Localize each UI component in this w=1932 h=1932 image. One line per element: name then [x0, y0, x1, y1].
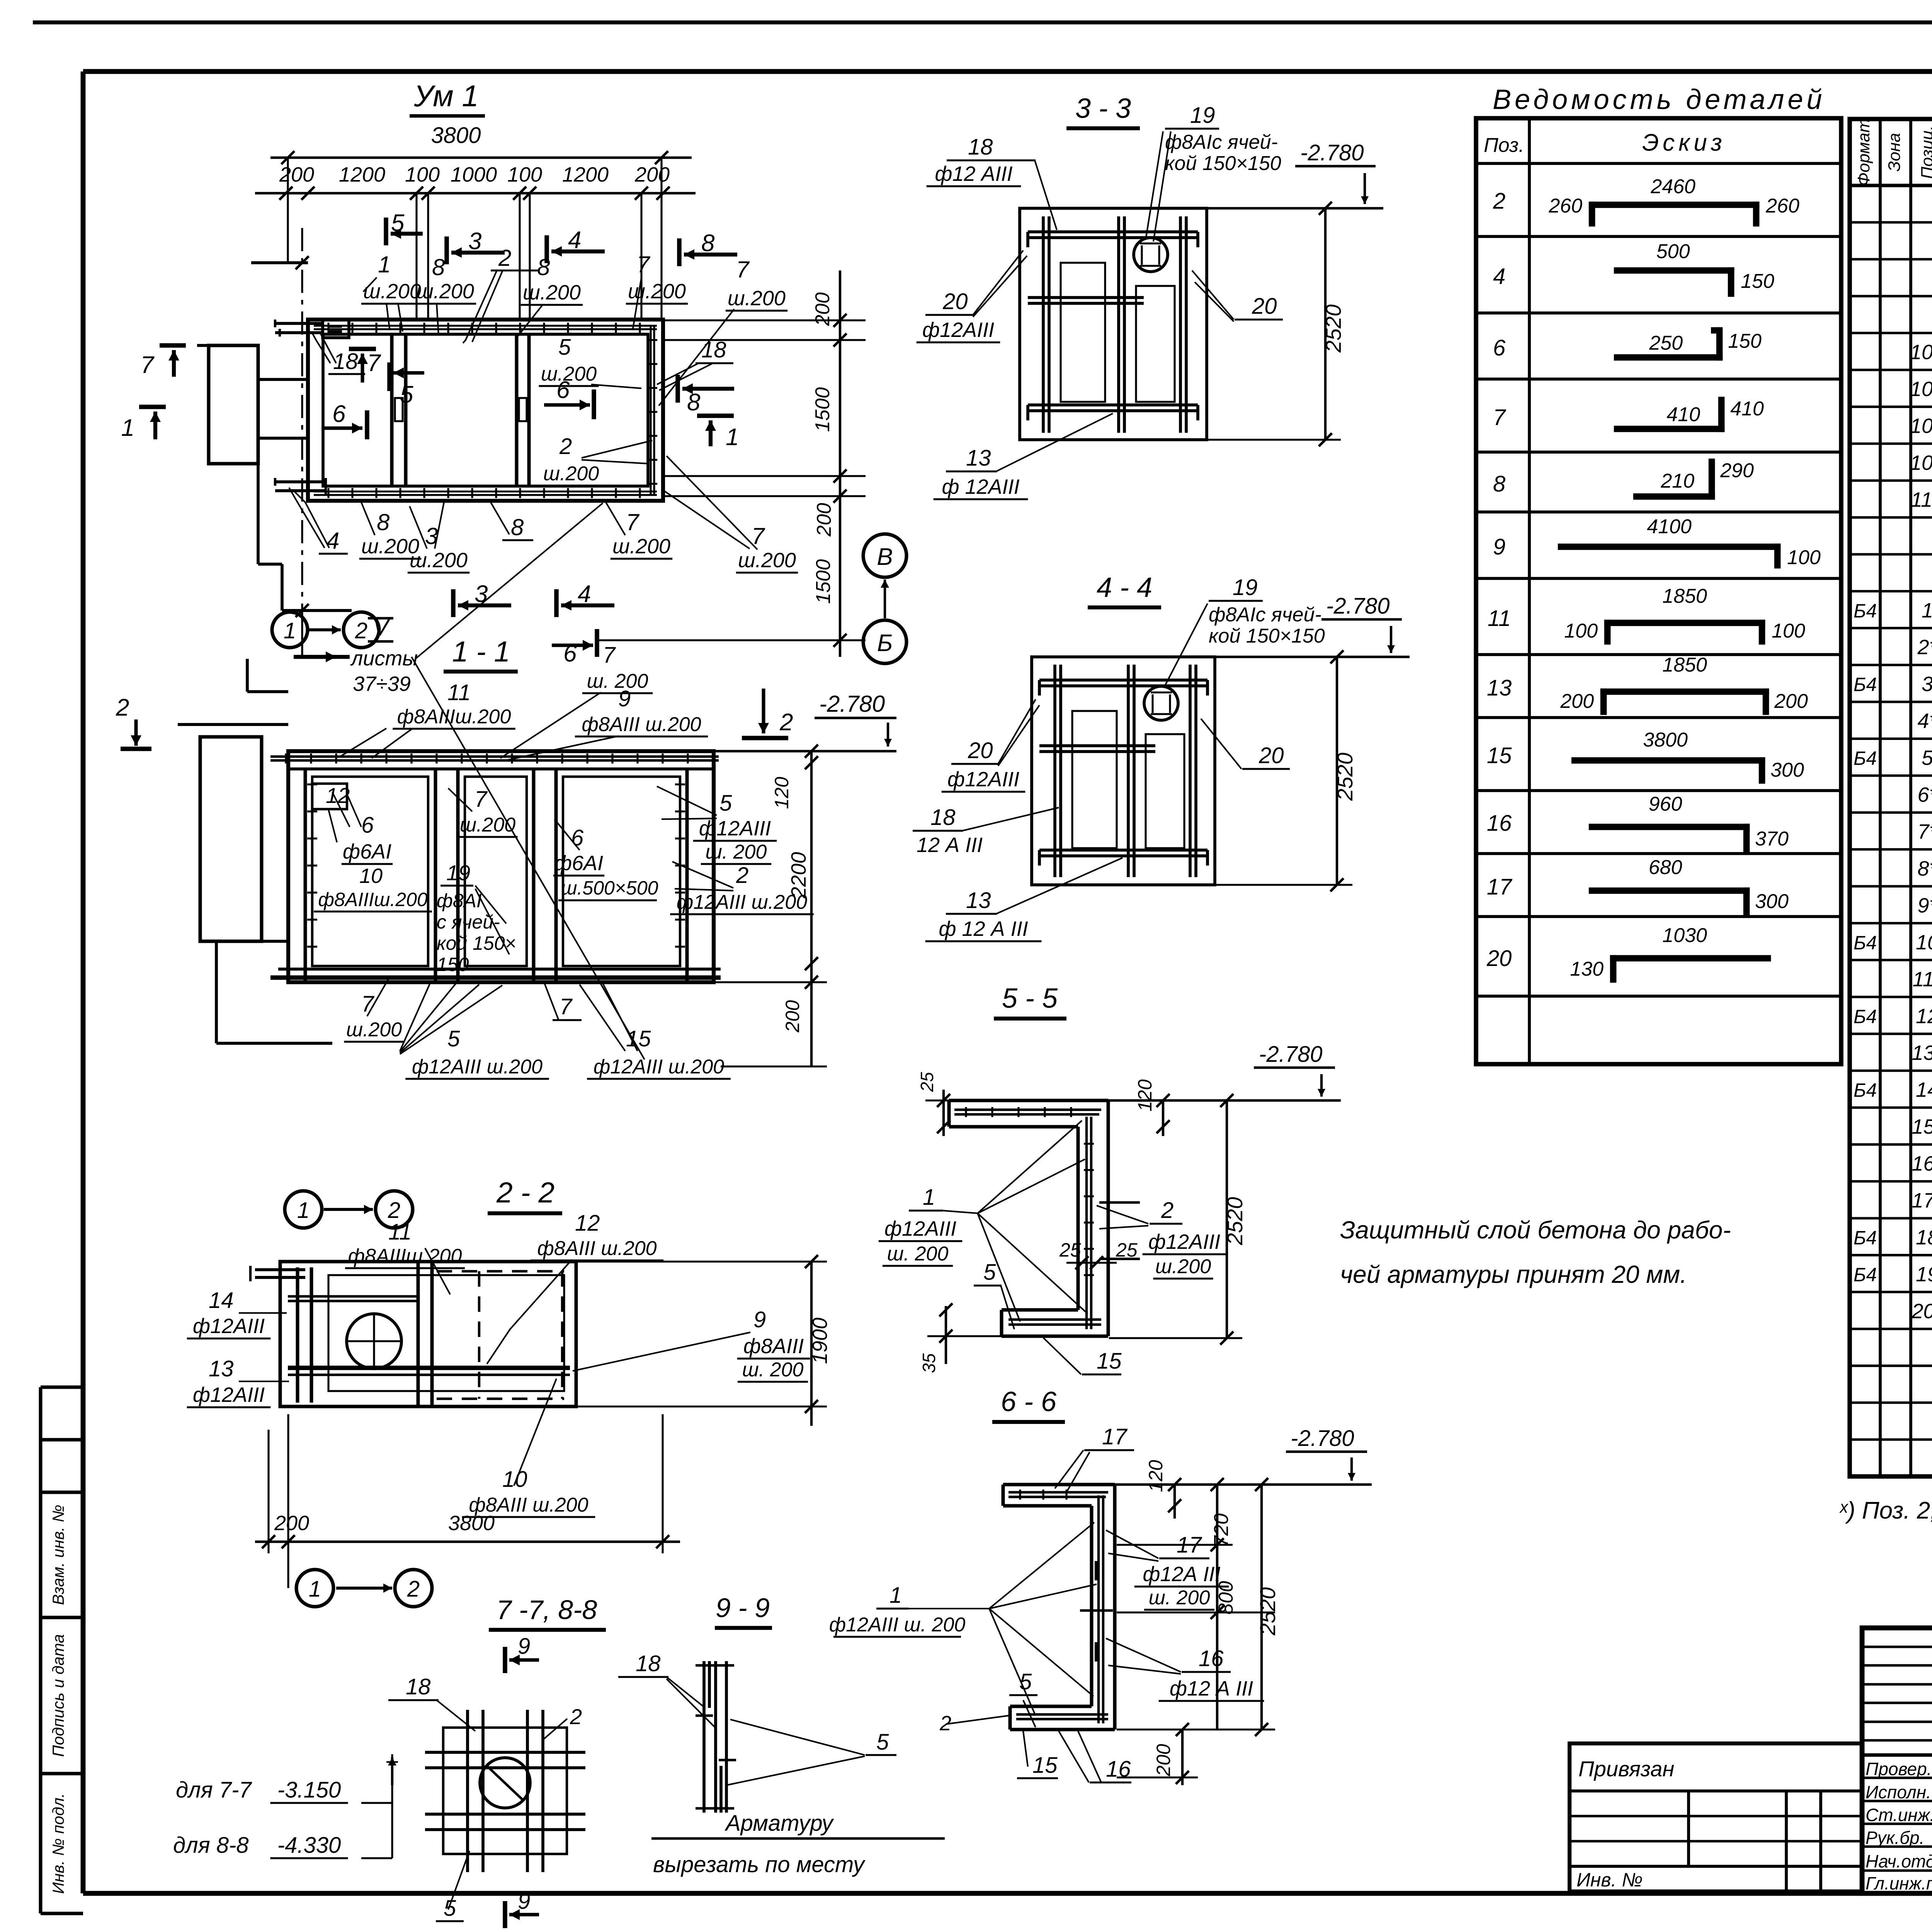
- vedomost sketch row 11: [1564, 585, 1805, 642]
- vedomost sketch row 17: [1592, 856, 1789, 913]
- svg-text:Защитный слой бетона до ра: Защитный слой бетона до рабо-: [1340, 1216, 1731, 1244]
- specification table grid: [1850, 119, 1932, 1476]
- svg-text:15: 15: [1487, 743, 1512, 768]
- plan label 8 bottom center: [491, 502, 533, 540]
- svg-text:7: 7: [367, 350, 381, 376]
- svg-text:14: 14: [209, 1288, 234, 1313]
- 5-5 label 15: [1043, 1338, 1122, 1374]
- svg-text:1: 1: [889, 1583, 902, 1608]
- plan embedded item top-left: [323, 320, 349, 338]
- node V mark: [294, 615, 418, 696]
- svg-text:150: 150: [1728, 330, 1762, 352]
- 1-1 label 6 f6AI sh500: [553, 819, 658, 900]
- svg-text:7: 7: [361, 992, 375, 1017]
- svg-text:300: 300: [1770, 759, 1804, 781]
- svg-text:ш.200: ш.200: [346, 1019, 402, 1041]
- svg-text:20: 20: [942, 289, 968, 314]
- spec row 104: [1910, 378, 1932, 401]
- svg-text:3 - 3: 3 - 3: [1075, 93, 1131, 124]
- svg-text:8: 8: [537, 254, 550, 280]
- svg-text:ф12АIII: ф12АIII: [884, 1217, 956, 1240]
- svg-text:Подпись и дата: Подпись и дата: [49, 1634, 67, 1757]
- svg-text:ф8АIс ячей-: ф8АIс ячей-: [1209, 604, 1321, 626]
- svg-text:410: 410: [1730, 398, 1764, 420]
- svg-text:410: 410: [1667, 403, 1700, 426]
- svg-text:ш. 200: ш. 200: [742, 1359, 804, 1381]
- 1-1 label 12 box: [312, 783, 350, 842]
- svg-text:1: 1: [726, 424, 739, 451]
- svg-text:1: 1: [297, 1198, 310, 1223]
- svg-text:20*: 20*: [1911, 1299, 1932, 1323]
- vedomost sketch row 4: [1617, 240, 1774, 294]
- svg-text:2: 2: [116, 694, 129, 721]
- svg-text:100: 100: [1787, 546, 1821, 569]
- svg-text:Зона: Зона: [1885, 133, 1904, 172]
- detail 7-7 label 2: [544, 1704, 582, 1739]
- svg-text:16: 16: [1487, 811, 1512, 836]
- svg-text:25: 25: [1059, 1239, 1081, 1261]
- 4-4 label 18 left: [913, 805, 1059, 857]
- svg-text:ф12АIII: ф12АIII: [699, 817, 771, 840]
- svg-text:кой 150×150: кой 150×150: [1209, 625, 1325, 647]
- svg-text:18: 18: [333, 349, 358, 374]
- detail 9-9 label 5: [726, 1719, 896, 1785]
- section 5-5 title: [994, 983, 1066, 1019]
- svg-text:ш.200: ш.200: [416, 280, 474, 303]
- svg-text:1850: 1850: [1662, 654, 1707, 676]
- 3-3 dimension 2520: [1207, 202, 1345, 446]
- label 18 plan: [312, 333, 365, 374]
- section 2-2 title: [488, 1176, 562, 1213]
- svg-text:200: 200: [1560, 690, 1594, 713]
- svg-text:Провер.: Провер.: [1866, 1759, 1932, 1779]
- svg-text:ф8АIс ячей-: ф8АIс ячей-: [1165, 131, 1278, 153]
- svg-text:7: 7: [474, 787, 488, 812]
- svg-text:5: 5: [876, 1730, 889, 1755]
- svg-text:18: 18: [701, 337, 726, 362]
- svg-text:8: 8: [701, 230, 715, 257]
- svg-text:чей арматуры принят 20 мм.: чей арматуры принят 20 мм.: [1340, 1260, 1687, 1288]
- 6-6 label 1 left: [829, 1522, 1097, 1716]
- plan label 7 sh.200 right: [626, 252, 688, 328]
- 6-6 level -2.780: [1115, 1426, 1372, 1485]
- vedomost sketch row 20: [1570, 924, 1768, 980]
- svg-text:9 - 9: 9 - 9: [716, 1593, 770, 1623]
- svg-text:1: 1: [1922, 599, 1932, 622]
- svg-text:120: 120: [1145, 1460, 1167, 1492]
- vedomost sketch row 9: [1561, 515, 1821, 569]
- 6-6 label 17 right: [1106, 1530, 1229, 1610]
- existing structure outline left of plan: [197, 256, 352, 617]
- svg-text:4 - 4: 4 - 4: [1097, 572, 1152, 603]
- section 3-3 body: [1020, 208, 1207, 440]
- 3-3 label 20 right: [1192, 270, 1283, 321]
- section 5-5 body: [949, 1100, 1140, 1336]
- svg-text:100: 100: [1772, 620, 1805, 642]
- svg-text:17*: 17*: [1912, 1189, 1932, 1212]
- spec detail row 18: [1854, 1226, 1932, 1249]
- svg-text:2460: 2460: [1650, 175, 1696, 198]
- svg-text:ф8АI: ф8АI: [437, 890, 482, 912]
- plan label 8 sh.200 (1): [414, 254, 476, 335]
- svg-text:2: 2: [498, 245, 511, 271]
- 1-1 label 6 f6AI 10: [314, 792, 432, 912]
- 4-4 label 19: [1164, 575, 1325, 688]
- privyazan block: [1570, 1743, 1862, 1893]
- 6-6 dimension 200: [1117, 1723, 1198, 1785]
- section 2-2 left protruding bars: [250, 1266, 305, 1281]
- detail 7-7 label 18: [388, 1674, 475, 1731]
- sheet top edge line: [33, 20, 1932, 24]
- svg-text:2: 2: [407, 1577, 420, 1602]
- svg-text:5: 5: [447, 1026, 460, 1051]
- spec row 110: [1911, 481, 1932, 516]
- svg-text:1: 1: [923, 1185, 935, 1210]
- svg-text:13*: 13*: [1912, 1041, 1932, 1065]
- title block signers: [1866, 1759, 1932, 1893]
- section 4-4 title: [1088, 572, 1161, 607]
- vedomost sketch row 16: [1592, 793, 1789, 850]
- svg-text:15: 15: [1032, 1753, 1058, 1778]
- svg-text:7: 7: [560, 994, 573, 1019]
- svg-text:1000: 1000: [451, 163, 497, 186]
- svg-text:2520: 2520: [1321, 304, 1345, 353]
- svg-text:100: 100: [1564, 620, 1598, 642]
- svg-text:200: 200: [813, 503, 835, 537]
- svg-text:для 8-8: для 8-8: [173, 1833, 249, 1858]
- svg-text:Арматуру: Арматуру: [724, 1811, 834, 1836]
- svg-text:1: 1: [378, 252, 391, 277]
- plan dimension chain 200/1200/100/1000/100/1200/200: [255, 163, 696, 321]
- 3-3 label 18: [927, 134, 1057, 230]
- svg-text:Б4: Б4: [1854, 748, 1877, 769]
- section 1-1 cut marker 2 left: [116, 694, 151, 749]
- 6-6 label 15: [1017, 1731, 1058, 1778]
- svg-text:6: 6: [361, 813, 374, 838]
- svg-text:Гл.инж.пр.: Гл.инж.пр.: [1866, 1873, 1932, 1893]
- svg-text:ш.200: ш.200: [1155, 1255, 1211, 1278]
- svg-text:листы: листы: [350, 647, 418, 670]
- svg-text:-2.780: -2.780: [1300, 140, 1364, 165]
- svg-text:5: 5: [391, 210, 405, 236]
- svg-text:2: 2: [1161, 1198, 1173, 1223]
- 3-3 label 13 bottom: [934, 413, 1113, 499]
- svg-text:200: 200: [634, 163, 670, 186]
- svg-text:ш.200: ш.200: [523, 281, 581, 304]
- title block frame: [1862, 1628, 1932, 1893]
- svg-text:ш.500×500: ш.500×500: [561, 877, 658, 899]
- svg-text:8: 8: [377, 509, 390, 535]
- svg-text:2: 2: [779, 709, 793, 736]
- svg-text:Ум 1: Ум 1: [413, 79, 479, 113]
- levels for 7-7 8-8: [173, 1754, 398, 1858]
- 1-1 label 5 right: [657, 786, 777, 864]
- svg-text:105: 105: [1910, 414, 1932, 437]
- svg-text:4: 4: [1493, 264, 1505, 289]
- svg-text:9: 9: [1493, 534, 1505, 560]
- svg-text:260: 260: [1548, 195, 1582, 217]
- svg-text:9: 9: [618, 686, 631, 711]
- 3-3 label 20 left: [917, 250, 1027, 342]
- plan label 7 sh.200 bottom: [606, 502, 672, 559]
- plan wall reinforcement lines: [314, 323, 657, 498]
- svg-text:3: 3: [468, 228, 481, 255]
- svg-text:18: 18: [968, 134, 993, 160]
- vedomost detaley table grid: [1476, 118, 1841, 1064]
- svg-text:6: 6: [332, 401, 346, 427]
- detail 7-7 grid: [425, 1710, 585, 1872]
- spec row 101: [1910, 334, 1932, 369]
- section 4-4 body: [1032, 657, 1215, 885]
- svg-text:16*: 16*: [1912, 1152, 1932, 1175]
- 1-1 label 5 bottom: [400, 981, 549, 1079]
- plan grid circles 1 2: [272, 611, 379, 657]
- svg-text:9*: 9*: [1917, 894, 1932, 917]
- svg-text:13: 13: [1487, 675, 1512, 701]
- svg-text:ш. 200: ш. 200: [1149, 1587, 1210, 1609]
- svg-text:-2.780: -2.780: [819, 691, 885, 717]
- spec detail row 6*: [1917, 783, 1932, 806]
- left stamp strip: [41, 1387, 83, 1913]
- svg-text:1200: 1200: [562, 163, 609, 186]
- 2-2 label 12: [487, 1211, 663, 1364]
- cut marker 8 right: [678, 375, 734, 416]
- svg-text:3: 3: [1922, 673, 1932, 696]
- svg-text:17: 17: [1487, 874, 1513, 900]
- svg-text:19: 19: [1916, 1263, 1932, 1286]
- svg-text:ф 12АIII: ф 12АIII: [942, 475, 1019, 498]
- spec detail row 1: [1854, 599, 1932, 622]
- svg-text:7: 7: [141, 352, 155, 378]
- 5-5 label 5: [974, 1260, 1014, 1329]
- svg-text:Б4: Б4: [1854, 1227, 1877, 1249]
- svg-text:1: 1: [121, 415, 134, 441]
- svg-text:200: 200: [1153, 1744, 1174, 1777]
- 2-2 dimension 1900: [572, 1255, 832, 1426]
- svg-text:300: 300: [1755, 890, 1789, 913]
- svg-text:7: 7: [1493, 405, 1507, 430]
- svg-text:11: 11: [447, 680, 471, 705]
- 1-1 label 15 bottom: [580, 983, 731, 1079]
- svg-text:Инв. №: Инв. №: [1577, 1869, 1643, 1891]
- svg-text:19: 19: [1233, 575, 1258, 600]
- spec detail row 19: [1854, 1263, 1932, 1286]
- svg-text:1500: 1500: [812, 559, 835, 604]
- footnote: [1839, 1497, 1932, 1524]
- 1-1 label 9: [505, 686, 708, 760]
- svg-text:104: 104: [1910, 378, 1932, 401]
- svg-text:Формат: Формат: [1854, 119, 1873, 186]
- vedomost sketch row 7: [1617, 398, 1764, 429]
- svg-text:16: 16: [1199, 1646, 1224, 1671]
- svg-text:20: 20: [1259, 743, 1284, 768]
- plan label 1 sh.200: [361, 252, 423, 332]
- detail 9-9 bars: [696, 1661, 736, 1813]
- section 6-6 body: [1003, 1485, 1115, 1730]
- svg-text:2: 2: [736, 863, 748, 888]
- 1-1 label 7 sh.200 top: [500, 643, 653, 758]
- svg-text:ф12АIII: ф12АIII: [193, 1315, 265, 1338]
- vedomost sketch row 6: [1617, 330, 1762, 357]
- section 1-1 body: [270, 751, 721, 982]
- plan right dimension chain: [595, 270, 866, 657]
- svg-text:Б4: Б4: [1854, 932, 1877, 954]
- 1-1 label 19: [437, 861, 516, 975]
- 5-5 level -2.780: [1108, 1042, 1341, 1100]
- 2-2 label 9 right: [573, 1307, 810, 1382]
- svg-text:для 7-7: для 7-7: [176, 1777, 252, 1803]
- svg-text:5: 5: [558, 335, 571, 360]
- svg-text:1900: 1900: [808, 1318, 832, 1364]
- svg-text:8: 8: [687, 389, 701, 416]
- svg-text:19: 19: [1190, 103, 1215, 128]
- spec detail row 16*: [1912, 1152, 1932, 1175]
- svg-text:35: 35: [919, 1353, 939, 1373]
- 5-5 dimension 35: [919, 1303, 1005, 1373]
- spec detail row 5: [1854, 747, 1932, 770]
- svg-text:260: 260: [1765, 195, 1799, 217]
- 6-6 label 5: [1009, 1669, 1037, 1727]
- cut marker 1 right: [697, 416, 739, 451]
- 2-2 label 11: [345, 1219, 465, 1294]
- 2-2 label 10 bottom: [462, 1379, 595, 1517]
- svg-text:18: 18: [636, 1651, 661, 1676]
- svg-text:2*: 2*: [1917, 636, 1932, 659]
- svg-text:В: В: [877, 544, 893, 570]
- svg-text:ф12АIII: ф12АIII: [193, 1383, 265, 1406]
- plan label 7 sh.200 far right: [659, 257, 787, 406]
- svg-text:960: 960: [1649, 793, 1682, 815]
- svg-text:ф6АI: ф6АI: [343, 840, 391, 863]
- svg-text:ф 12 А III: ф 12 А III: [939, 917, 1028, 940]
- vedomost sketch row 2: [1548, 175, 1799, 223]
- plan UM1 title: [410, 79, 485, 116]
- detail 7-7 cut marker 9 top: [505, 1634, 539, 1673]
- svg-text:Привязан: Привязан: [1578, 1757, 1674, 1781]
- svg-text:370: 370: [1755, 828, 1789, 850]
- 6-6 label 16 right: [1106, 1638, 1264, 1701]
- 3-3 label 19: [1146, 103, 1281, 241]
- svg-text:ф12АIII: ф12АIII: [922, 318, 994, 342]
- svg-text:12 А III: 12 А III: [917, 833, 983, 857]
- plan axis line: [301, 228, 303, 657]
- plan overall dimension 3800: [270, 123, 692, 320]
- vedomost sketch row 13: [1560, 654, 1808, 713]
- spec detail row 17*: [1912, 1189, 1932, 1212]
- svg-text:ф12АIII ш. 200: ф12АIII ш. 200: [829, 1614, 966, 1636]
- svg-text:18: 18: [930, 805, 956, 830]
- svg-text:7*: 7*: [1917, 820, 1932, 844]
- 2-2 bottom dimensions 200 3800: [255, 1414, 680, 1588]
- svg-text:7 -7, 8-8: 7 -7, 8-8: [497, 1595, 597, 1625]
- svg-text:кой 150×150: кой 150×150: [1165, 152, 1281, 175]
- plan label 4 bottom: [289, 488, 348, 554]
- svg-text:ф12А III: ф12А III: [1143, 1563, 1220, 1586]
- svg-text:4: 4: [578, 581, 591, 607]
- svg-text:Ведомость деталей: Ведомость деталей: [1493, 84, 1825, 115]
- 6-6 small 2 label: [939, 1712, 1009, 1735]
- svg-text:ш.200: ш.200: [460, 814, 515, 836]
- svg-text:210: 210: [1660, 470, 1694, 492]
- svg-text:1: 1: [309, 1577, 321, 1602]
- plan label 3 sh.200 bottom: [408, 500, 469, 573]
- svg-text:13: 13: [209, 1356, 234, 1381]
- svg-text:8: 8: [432, 254, 445, 280]
- svg-text:1200: 1200: [339, 163, 385, 186]
- cut marker 4 bottom: [556, 581, 614, 617]
- 1-1 label 7 sh.200 mid: [448, 787, 518, 837]
- cut marker 4 top: [547, 227, 605, 263]
- svg-text:ф12АIII ш.200: ф12АIII ш.200: [412, 1056, 543, 1078]
- svg-text:2: 2: [1493, 189, 1505, 214]
- svg-text:Инв. № подл.: Инв. № подл.: [49, 1793, 67, 1894]
- svg-text:3800: 3800: [431, 123, 481, 148]
- plan protruding bars top-left: [275, 320, 323, 337]
- detail 9-9 label 18: [618, 1651, 715, 1727]
- plan label 18 right: [657, 337, 733, 390]
- svg-text:ф8АIII ш.200: ф8АIII ш.200: [582, 713, 701, 736]
- svg-text:200: 200: [1774, 690, 1808, 713]
- cut marker 3 bottom: [453, 581, 511, 617]
- 6-6 label 17 top: [1055, 1424, 1134, 1492]
- spec row 106: [1910, 451, 1932, 474]
- svg-text:9: 9: [518, 1889, 530, 1914]
- cut marker 7 room1: [349, 349, 381, 383]
- plan label 2 sh.200 room3: [541, 434, 652, 486]
- 3-3 level -2.780: [1207, 140, 1383, 208]
- svg-text:ˣ) Поз. 2,4,6÷9, 11, 13, 15÷17: ˣ) Поз. 2,4,6÷9, 11, 13, 15÷17, 20 см. В…: [1839, 1497, 1932, 1524]
- plan internal wall 2: [517, 334, 529, 486]
- svg-text:5: 5: [719, 791, 732, 816]
- plan internal wall 1: [392, 334, 406, 486]
- spec detail row 4*: [1917, 709, 1932, 733]
- svg-text:ш.200: ш.200: [541, 363, 597, 385]
- svg-text:8: 8: [511, 514, 524, 540]
- 4-4 label 20 right: [1201, 719, 1290, 769]
- svg-text:150: 150: [437, 954, 469, 975]
- svg-text:6*: 6*: [1917, 783, 1932, 806]
- svg-text:4: 4: [327, 528, 339, 554]
- svg-text:12: 12: [1916, 1005, 1932, 1028]
- detail 7-7 label 5: [436, 1851, 469, 1921]
- 5-5 dimension 2520: [1109, 1094, 1247, 1345]
- svg-text:2520: 2520: [1223, 1197, 1247, 1246]
- svg-text:1850: 1850: [1662, 585, 1707, 607]
- svg-text:5: 5: [400, 381, 413, 408]
- svg-text:Б4: Б4: [1854, 600, 1877, 622]
- svg-text:37÷39: 37÷39: [353, 672, 411, 696]
- title 7-7 8-8: [489, 1595, 606, 1630]
- vedomost detaley table title: [1493, 84, 1825, 115]
- svg-text:8: 8: [1493, 471, 1505, 497]
- svg-text:Б4: Б4: [1854, 1080, 1877, 1101]
- svg-text:14: 14: [1916, 1078, 1932, 1102]
- svg-text:200: 200: [274, 1512, 309, 1535]
- 5-5 label 2: [1097, 1198, 1226, 1279]
- concrete cover note: [1340, 1216, 1731, 1288]
- spec detail row 7*: [1917, 820, 1932, 844]
- 4-4 label 20 left: [942, 699, 1039, 792]
- 1-1 label 7 bottom mid: [544, 982, 582, 1020]
- svg-text:19: 19: [446, 861, 470, 885]
- svg-text:Рук.бр.: Рук.бр.: [1866, 1828, 1924, 1848]
- svg-text:ф12 А III: ф12 А III: [1170, 1677, 1253, 1700]
- 5-5 labels 25 25: [1059, 1239, 1138, 1269]
- svg-text:250: 250: [1649, 332, 1683, 354]
- section 1-1 cut marker 2 right: [742, 689, 793, 738]
- cut marker 3 top: [447, 228, 505, 264]
- svg-text:150: 150: [1741, 270, 1774, 293]
